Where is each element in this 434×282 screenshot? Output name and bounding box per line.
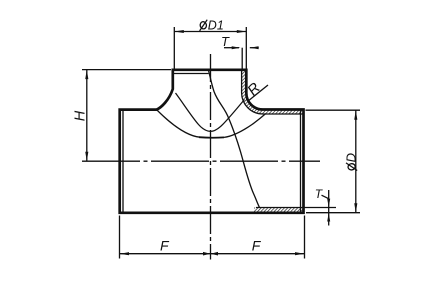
svg-text:F: F <box>160 237 170 253</box>
svg-text:F: F <box>252 237 262 253</box>
svg-text:T: T <box>221 34 230 49</box>
svg-text:D: D <box>344 153 359 162</box>
svg-text:D1: D1 <box>208 18 224 32</box>
svg-text:T: T <box>315 187 324 201</box>
svg-text:H: H <box>72 110 88 121</box>
